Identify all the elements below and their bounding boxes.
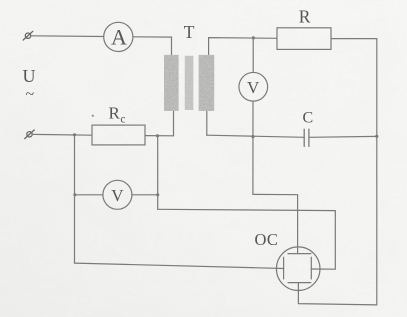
transformer T secondary winding bar xyxy=(199,55,215,111)
node right rail at capacitor xyxy=(375,135,378,138)
wire transformer secondary top lead xyxy=(209,38,277,56)
resistor R box xyxy=(277,28,331,50)
capacitor C plates xyxy=(304,129,309,146)
ammeter A1 circle xyxy=(104,22,133,51)
wire R to right rail xyxy=(331,38,377,40)
wire to oscilloscope right plate xyxy=(158,209,336,269)
wire capacitor to right rail xyxy=(309,135,377,138)
bottom rail wire to oscilloscope left plate xyxy=(75,263,284,268)
wire node down to voltmeter V2 right xyxy=(157,136,159,210)
transformer T primary winding bar xyxy=(164,55,179,111)
resistor Rc box xyxy=(92,125,145,145)
wire J1 to ammeter xyxy=(31,35,104,38)
node V2 left xyxy=(73,193,76,196)
wire transformer primary bottom lead xyxy=(173,111,175,136)
bottom wire to oscilloscope bottom plate xyxy=(298,283,376,305)
oscilloscope left plate xyxy=(283,257,285,279)
wire secondary to capacitor xyxy=(207,135,304,137)
node capacitor line at V1 lead xyxy=(251,135,254,138)
wire V2 right lead xyxy=(132,194,158,196)
oscilloscope right plate xyxy=(310,257,312,279)
wire node down to bottom rail xyxy=(74,135,76,263)
node V2 right xyxy=(156,193,159,196)
oscilloscope CRT circle xyxy=(276,247,320,291)
terminal J2 (bottom left input) xyxy=(25,130,35,139)
terminal J1 (top left input) xyxy=(23,31,33,40)
node top at V1 xyxy=(252,36,255,39)
node at x=74.5 on lower input wire xyxy=(73,133,76,136)
wire Rc to transformer lead xyxy=(145,135,174,137)
wire ammeter to transformer primary top xyxy=(133,37,172,55)
speck dot near Rc xyxy=(92,115,94,117)
oscilloscope top plate xyxy=(288,253,311,255)
voltmeter V1 circle xyxy=(239,72,268,101)
wire V1 branch to oscilloscope top plate xyxy=(253,194,298,253)
wire V1 top lead xyxy=(252,38,254,73)
wire J2 to resistor Rc xyxy=(32,133,92,136)
wire transformer secondary bottom lead xyxy=(206,111,208,135)
oscilloscope bottom plate xyxy=(288,282,311,284)
wire V1 bottom lead down xyxy=(252,101,254,194)
transformer T core bar xyxy=(185,56,194,110)
right rail wire down xyxy=(376,39,378,305)
voltmeter V2 circle xyxy=(103,180,132,209)
node at x=157.5 xyxy=(156,134,159,137)
wire V2 left lead xyxy=(75,194,103,196)
